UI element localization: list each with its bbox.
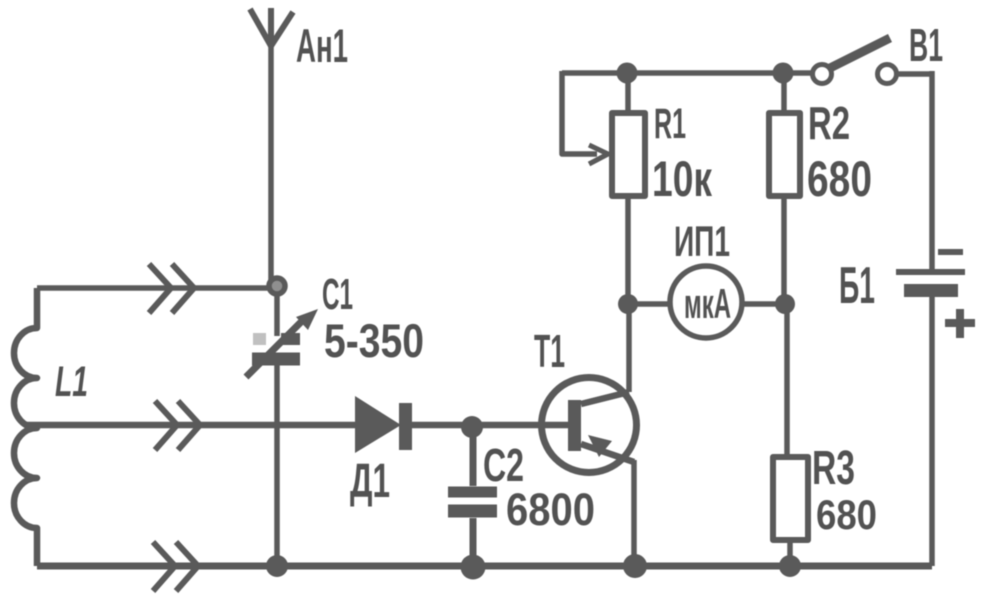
wire wiper drop: [562, 71, 597, 154]
battery Б1: [896, 252, 975, 338]
svg-text:мкА: мкА: [684, 280, 731, 327]
node meter right: [775, 294, 795, 314]
svg-text:L1: L1: [55, 358, 88, 406]
svg-text:Б1: Б1: [839, 257, 875, 315]
node top rail R1: [617, 63, 638, 84]
resistor R3: [773, 304, 808, 566]
meter ИП1: [628, 266, 784, 338]
wire collector up: [626, 304, 632, 392]
chevrons top tap: [149, 264, 194, 313]
wire diode to base: [412, 422, 568, 429]
node bottom C2: [461, 555, 486, 580]
resistor R2: [769, 73, 800, 304]
svg-text:Т1: Т1: [534, 325, 565, 377]
wire emitter down: [631, 460, 637, 566]
wire middle tap: [26, 422, 356, 429]
wire top rail: [562, 70, 813, 76]
wire C1 down to bottom rail: [274, 364, 280, 566]
svg-text:680: 680: [807, 151, 872, 207]
wiper arrowhead: [589, 145, 608, 164]
node top rail R2: [773, 63, 794, 84]
antenna Ан1: [250, 8, 293, 46]
chevrons bottom tap: [153, 542, 198, 591]
svg-text:Ан1: Ан1: [296, 19, 348, 72]
chevrons middle tap: [155, 401, 200, 450]
svg-text:ИП1: ИП1: [674, 218, 730, 266]
diode Д1: [355, 396, 412, 453]
svg-text:R1: R1: [654, 100, 686, 148]
node bottom R3: [779, 555, 801, 577]
wire top tap: [37, 285, 270, 291]
capacitor C2: [448, 427, 497, 566]
svg-text:10к: 10к: [652, 151, 713, 207]
svg-text:Д1: Д1: [350, 455, 390, 508]
wire bottom rail: [37, 563, 932, 570]
node detector junction: [461, 416, 483, 438]
svg-text:5-350: 5-350: [324, 314, 424, 367]
wire battery down: [929, 297, 935, 566]
svg-text:6800: 6800: [506, 484, 595, 535]
node bottom emitter: [623, 554, 647, 578]
svg-text:C1: C1: [322, 270, 353, 319]
node meter left: [618, 294, 638, 314]
coil L1: [14, 288, 37, 566]
wire antenna lead-in: [268, 42, 274, 284]
resistor R1: [612, 73, 645, 304]
node bottom C1: [266, 555, 288, 577]
svg-text:680: 680: [816, 491, 877, 538]
node top tap junction: [269, 278, 285, 294]
svg-text:R2: R2: [808, 97, 850, 149]
switch В1: [813, 38, 933, 84]
svg-text:R3: R3: [812, 442, 855, 495]
svg-text:В1: В1: [909, 19, 943, 71]
transistor T1: [542, 378, 637, 473]
capacitor C1 (variable): [246, 292, 318, 377]
wire right rail down to battery: [929, 71, 935, 269]
